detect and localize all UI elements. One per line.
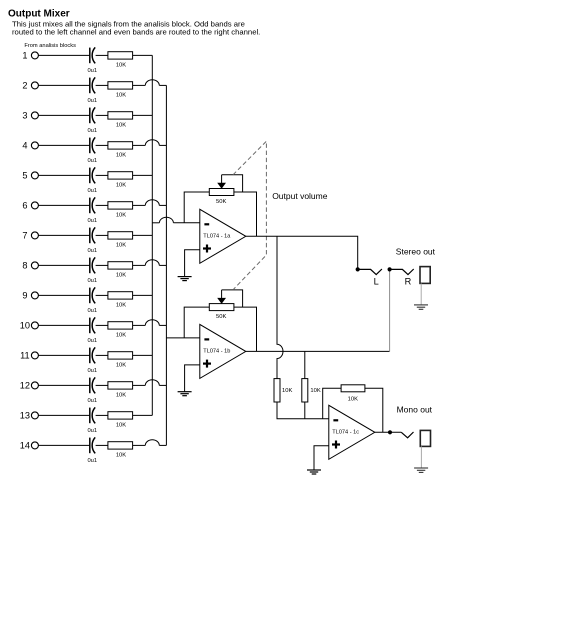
potentiometer wiper arrow [217,175,226,189]
wire: mono feedback tap up [323,388,341,419]
svg-text:10K: 10K [116,152,126,158]
wire: capacitor C8 to resistor R8 [96,264,108,266]
svg-text:10K: 10K [116,362,126,368]
svg-text:10K: 10K [116,332,126,338]
svg-text:0u1: 0u1 [87,188,97,194]
input terminal 8 [22,261,38,271]
wire: wiper tied to right terminal [222,290,243,307]
mono jack body [420,430,430,446]
wire: terminal 2 to capacitor C2 [38,84,89,86]
ground (stereo jack) [414,305,428,309]
svg-text:10K: 10K [116,272,126,278]
input terminal 9 [22,291,38,301]
wire: resistor R9 to left bus [133,294,153,296]
input terminal 10 [20,321,39,331]
op-amp U1b TL074 - 1b [200,324,246,378]
wire: non-inverting input to ground [185,365,200,392]
input terminal 6 [22,201,38,211]
wire: capacitor C4 to resistor R4 [96,144,108,146]
svg-text:10K: 10K [116,92,126,98]
capacitor C13 0u1 [87,407,97,433]
wire: resistor R8 toward hop [133,264,146,266]
resistor R4 10K (R to mono) [302,379,321,402]
svg-text:50K: 50K [216,199,226,205]
wire hop over left bus (channel 14) [145,440,159,446]
jack switch contact mono [401,432,413,438]
wire: resistor R14 toward hop [133,444,146,446]
resistor R14 10K [108,442,133,459]
ground (op-amp TL074 - 1b) [178,392,192,396]
svg-text:10K: 10K [282,388,292,394]
svg-text:0u1: 0u1 [87,338,97,344]
resistor R9 10K [108,292,133,309]
resistor R10 10K [108,322,133,339]
wire: resistor R6 toward hop [133,204,146,206]
capacitor C3 0u1 [87,107,97,133]
capacitor C4 0u1 [87,137,97,163]
resistor R2 10K [108,82,133,99]
wire: op-amp 1b output toward R [246,350,390,352]
svg-text:10K: 10K [116,212,126,218]
resistor R12 10K [108,382,133,399]
resistor R5 10K [108,172,133,189]
wire: hop to right bus (channel 2) [159,84,166,86]
svg-text:From analisis blocks: From analisis blocks [24,43,76,49]
wire: terminal 5 to capacitor C5 [38,174,89,176]
wire: capacitor C5 to resistor R5 [96,174,108,176]
input terminal 14 [20,441,39,451]
wire: resistor R2 toward hop [133,84,146,86]
wire: terminal 14 to capacitor C14 [38,444,89,446]
op-amp U1c TL074 - 1c [329,405,375,459]
wire: resistor R12 toward hop [133,384,146,386]
svg-text:8: 8 [22,261,27,271]
wire: capacitor C6 to resistor R6 [96,204,108,206]
svg-text:TL074 - 1b: TL074 - 1b [203,349,230,355]
wire: terminal 13 to capacitor C13 [38,414,89,416]
wire: capacitor C13 to resistor R13 [96,414,108,416]
svg-text:0u1: 0u1 [87,368,97,374]
wire: terminal 1 to capacitor C1 [38,54,89,56]
jack switch contact L [358,269,382,275]
ground (op-amp TL074 - 1a) [178,277,192,281]
svg-text:13: 13 [20,411,30,421]
svg-text:0u1: 0u1 [87,128,97,134]
wire hop over right bus [159,217,173,223]
resistor R4 10K [108,142,133,159]
wire: resistor R10 toward hop [133,324,146,326]
wire: R3 to summing node [277,402,329,419]
wire: terminal 10 to capacitor C10 [38,324,89,326]
wire: terminal 11 to capacitor C11 [38,354,89,356]
left (odd) summing bus [151,55,153,415]
wire: resistor R13 to left bus [133,414,153,416]
wire: terminal 8 to capacitor C8 [38,264,89,266]
svg-text:L: L [374,276,379,286]
resistor R8 10K [108,262,133,279]
wire hop over left bus (channel 8) [145,260,159,266]
potentiometer 50K (TL074 - 1b volume) [209,304,234,321]
potentiometer wiper arrow [217,290,226,304]
svg-text:0u1: 0u1 [87,98,97,104]
wire: mono jack sleeve to ground [420,446,422,467]
capacitor C11 0u1 [87,347,97,373]
svg-text:10K: 10K [348,397,358,403]
resistor R7 10K [108,232,133,249]
wire: 1b output tap down to R4 [304,351,306,378]
svg-text:TL074 - 1c: TL074 - 1c [332,430,359,436]
svg-text:10K: 10K [116,302,126,308]
svg-text:10K: 10K [116,182,126,188]
svg-text:1: 1 [22,51,27,61]
wire: stereo jack sleeve to ground [420,283,422,304]
resistor R11 10K [108,352,133,369]
wire: resistor R11 to left bus [133,354,153,356]
wire: capacitor C10 to resistor R10 [96,324,108,326]
wire: capacitor C1 to resistor R1 [96,54,108,56]
input terminal 13 [20,411,39,421]
svg-text:3: 3 [22,111,27,121]
wire: capacitor C14 to resistor R14 [96,444,108,446]
wire: 1a output tap down to R3 (hop over 1b output) [277,236,283,378]
wire: hop to right bus (channel 10) [159,324,166,326]
wire: terminal 7 to capacitor C7 [38,234,89,236]
resistor R3 10K (L to mono) [274,379,292,402]
input terminal 7 [22,231,38,241]
wire: up to R jack terminal [389,269,391,351]
wire: hop to right bus (channel 14) [159,444,166,446]
capacitor C6 0u1 [87,197,97,223]
wire hop over left bus (channel 6) [145,200,159,206]
wire hop over left bus (channel 12) [145,380,159,386]
wire: resistor R7 to left bus [133,234,153,236]
input terminal 2 [22,81,38,91]
wire: feedback left leg up to potentiometer [184,192,209,223]
svg-text:R: R [405,276,412,286]
svg-text:2: 2 [22,81,27,91]
wire: right bus to op-amp TL074 - 1b inverting input [166,337,199,339]
svg-text:Stereo out: Stereo out [396,247,436,257]
resistor R3 10K [108,112,133,129]
svg-text:10K: 10K [116,392,126,398]
wire: hop to op-amp TL074 - 1a inverting input [173,222,199,224]
svg-text:14: 14 [20,441,30,451]
svg-text:Output Mixer: Output Mixer [8,8,70,19]
svg-text:7: 7 [22,231,27,241]
wire: resistor R3 to left bus [133,114,153,116]
wire: non-inverting input to ground [185,250,200,277]
input terminal 3 [22,111,38,121]
capacitor C10 0u1 [87,317,97,343]
wire: hop to right bus (channel 4) [159,144,166,146]
junction dot R [388,267,392,271]
svg-text:6: 6 [22,201,27,211]
wire: pot right terminal down to output [234,307,257,351]
svg-text:0u1: 0u1 [87,158,97,164]
description paragraph [12,19,260,36]
input terminal 4 [22,141,38,151]
input terminal 11 [20,351,38,361]
wire: R4 to summing node [304,402,306,419]
wire: hop to right bus (channel 8) [159,264,166,266]
svg-text:50K: 50K [216,314,226,320]
svg-text:10K: 10K [116,122,126,128]
right (even) summing bus [165,85,167,445]
svg-text:Mono out: Mono out [397,405,433,415]
wire hop over left bus (channel 4) [145,140,159,146]
wire: capacitor C7 to resistor R7 [96,234,108,236]
svg-text:0u1: 0u1 [87,308,97,314]
wire: terminal 6 to capacitor C6 [38,204,89,206]
resistor R5 10K (mono feedback) [341,385,365,403]
wire: left bus to hop (op-amp TL074 - 1a inverting input) [152,222,159,224]
wire: resistor R4 toward hop [133,144,146,146]
dashed gang line linking dual potentiometer (output volume) [233,141,266,290]
ground (mono jack) [414,468,428,472]
wire: 1c output [375,431,402,433]
wire: resistor R5 to left bus [133,174,153,176]
wire: feedback resistor to 1c output [365,388,383,432]
wire: capacitor C3 to resistor R3 [96,114,108,116]
capacitor C5 0u1 [87,167,97,193]
svg-text:0u1: 0u1 [87,458,97,464]
svg-text:12: 12 [20,381,30,391]
svg-text:0u1: 0u1 [87,428,97,434]
capacitor C8 0u1 [87,257,97,283]
op-amp U1a TL074 - 1a [200,209,246,263]
resistor R13 10K [108,412,133,429]
svg-text:10K: 10K [310,388,320,394]
svg-text:0u1: 0u1 [87,218,97,224]
potentiometer 50K (TL074 - 1a volume) [209,189,234,206]
wire: hop to right bus (channel 6) [159,204,166,206]
wire: terminal 4 to capacitor C4 [38,144,89,146]
svg-text:0u1: 0u1 [87,398,97,404]
svg-text:0u1: 0u1 [87,278,97,284]
wire: capacitor C11 to resistor R11 [96,354,108,356]
input terminal 12 [20,381,39,391]
wire: hop to right bus (channel 12) [159,384,166,386]
svg-text:10K: 10K [116,422,126,428]
svg-text:5: 5 [22,171,27,181]
capacitor C7 0u1 [87,227,97,253]
wire: terminal 3 to capacitor C3 [38,114,89,116]
wire hop over left bus (channel 2) [145,80,159,86]
svg-text:Output volume: Output volume [272,191,328,201]
svg-text:0u1: 0u1 [87,68,97,74]
stereo jack body [420,267,430,284]
svg-text:0u1: 0u1 [87,248,97,254]
capacitor C9 0u1 [87,287,97,313]
wire: wiper tied to right terminal [222,175,243,192]
svg-text:routed to the left channel and: routed to the left channel and even band… [12,27,260,36]
wire: resistor R1 to left bus [133,54,153,56]
capacitor C14 0u1 [87,437,97,463]
svg-text:9: 9 [22,291,27,301]
resistor R1 10K [108,52,133,69]
capacitor C12 0u1 [87,377,97,403]
wire: op-amp 1a output to L [246,236,358,269]
jack switch contact R [390,269,414,275]
wire: terminal 12 to capacitor C12 [38,384,89,386]
input terminal 5 [22,171,38,181]
wire: capacitor C12 to resistor R12 [96,384,108,386]
ground (op-amp 1c) [307,470,321,474]
input terminal 1 [22,51,38,61]
resistor R6 10K [108,202,133,219]
junction dot L [356,267,360,271]
junction dot mono out [388,430,392,434]
svg-text:10K: 10K [116,62,126,68]
wire: capacitor C2 to resistor R2 [96,84,108,86]
capacitor C1 0u1 [87,47,97,73]
svg-text:10K: 10K [116,242,126,248]
wire: capacitor C9 to resistor R9 [96,294,108,296]
wire: pot right terminal down to output [234,192,257,236]
capacitor C2 0u1 [87,77,97,103]
wire hop over left bus (channel 10) [145,320,159,326]
svg-text:4: 4 [22,141,27,151]
svg-text:TL074 - 1a: TL074 - 1a [203,234,231,240]
svg-text:10K: 10K [116,452,126,458]
wire: feedback left leg up to potentiometer [184,307,209,338]
wire: 1c non-inverting input to ground [314,446,329,470]
svg-text:10: 10 [20,321,30,331]
wire: terminal 9 to capacitor C9 [38,294,89,296]
svg-text:11: 11 [20,351,30,361]
